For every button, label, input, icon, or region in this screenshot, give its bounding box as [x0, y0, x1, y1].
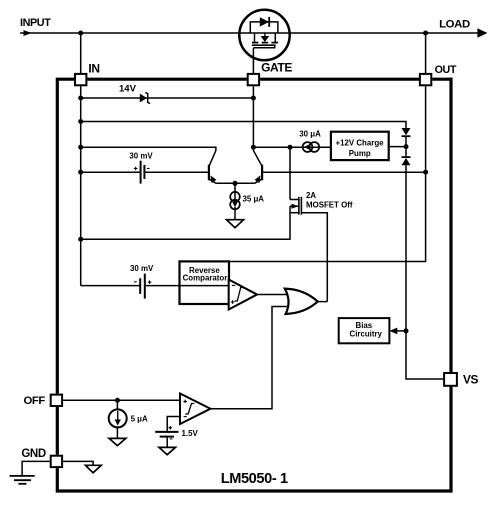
svg-text:30 μA: 30 μA: [299, 130, 321, 139]
svg-text:GATE: GATE: [261, 61, 292, 75]
svg-text:OFF: OFF: [24, 395, 46, 407]
svg-text:Comparator: Comparator: [183, 274, 228, 283]
svg-text:VS: VS: [463, 373, 478, 387]
svg-text:OUT: OUT: [435, 64, 457, 76]
svg-text:30 mV: 30 mV: [130, 264, 154, 273]
svg-text:Circuitry: Circuitry: [350, 329, 383, 338]
svg-text:35 μA: 35 μA: [243, 195, 265, 204]
svg-text:Pump: Pump: [349, 149, 371, 158]
svg-text:14V: 14V: [119, 84, 137, 95]
svg-text:+12V Charge: +12V Charge: [336, 138, 385, 147]
svg-text:IN: IN: [88, 61, 99, 75]
svg-text:LOAD: LOAD: [439, 19, 470, 31]
svg-text:GND: GND: [21, 448, 45, 460]
svg-text:1.5V: 1.5V: [182, 429, 199, 438]
svg-text:30 mV: 30 mV: [129, 152, 153, 161]
svg-text:2A: 2A: [306, 191, 316, 200]
svg-text:MOSFET Off: MOSFET Off: [306, 201, 353, 210]
svg-text:LM5050- 1: LM5050- 1: [221, 471, 288, 487]
svg-text:INPUT: INPUT: [20, 17, 51, 29]
svg-text:5 μA: 5 μA: [131, 414, 148, 423]
